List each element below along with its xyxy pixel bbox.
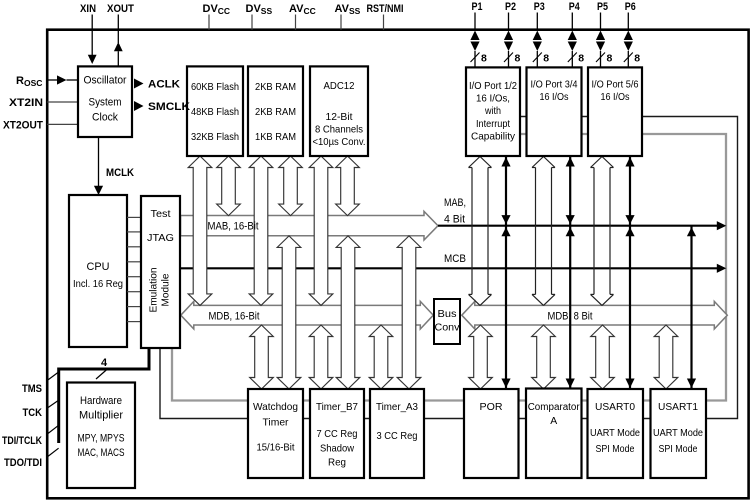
svg-text:XT2OUT: XT2OUT (3, 119, 43, 131)
block ADC12 (310, 66, 368, 156)
svg-text:POR: POR (480, 402, 503, 413)
bus connector IOPort56-MDB8 (open arrow) (591, 157, 603, 168)
svg-text:MPY, MPYS: MPY, MPYS (78, 433, 125, 445)
block Comparator A (526, 389, 582, 479)
bus connector Flash-MAB (short) (217, 156, 241, 216)
bus connector TimerB7-MAB (long) (336, 236, 360, 389)
block Watchdog Timer (248, 389, 303, 478)
signal SMCLK (134, 101, 144, 111)
svg-text:<10µs Conv.: <10µs Conv. (313, 137, 366, 148)
svg-text:TDI/TCLK: TDI/TCLK (2, 435, 42, 447)
svg-text:JTAG: JTAG (147, 233, 174, 244)
wire black wrap line I/O ports to JTAG (right/bottom loop) (160, 117, 738, 419)
arrow MCB right arrowhead (717, 264, 727, 273)
block I/O Port 1/2 (466, 67, 520, 156)
bus connector Watchdog-MAB (long) (277, 236, 301, 389)
svg-text:60KB Flash: 60KB Flash (191, 82, 239, 93)
svg-text:8: 8 (634, 53, 640, 65)
svg-text:Oscillator: Oscillator (84, 75, 127, 87)
svg-text:8 Channels: 8 Channels (315, 124, 363, 135)
wire gray wrap line I/O ports to emulation (right/bottom loop) (172, 134, 726, 401)
svg-text:TDO/TDI: TDO/TDI (4, 457, 42, 469)
svg-text:4 Bit: 4 Bit (444, 214, 465, 226)
svg-text:UART Mode: UART Mode (653, 428, 703, 439)
svg-text:Watchdog: Watchdog (253, 402, 298, 413)
bus connector Flash-MDB (long) (188, 156, 212, 305)
svg-text:P6: P6 (625, 1, 636, 13)
svg-text:Reg: Reg (328, 457, 346, 468)
block Bus Conv (434, 299, 460, 344)
svg-text:USART0: USART0 (595, 402, 635, 413)
svg-text:Timer: Timer (263, 417, 290, 428)
block Timer_B7 (310, 389, 364, 478)
svg-text:2KB RAM: 2KB RAM (255, 107, 296, 118)
svg-text:8: 8 (543, 53, 549, 65)
svg-text:Comparator: Comparator (528, 402, 581, 413)
block I/O Port 5/6 (588, 67, 642, 156)
svg-text:TMS: TMS (22, 383, 42, 395)
block Test/JTAG Emulation Module (141, 196, 180, 348)
svg-text:XOUT: XOUT (107, 3, 134, 15)
bus connector POR-MDB8 (469, 325, 493, 389)
svg-text:8: 8 (578, 53, 584, 65)
svg-text:XT2IN: XT2IN (9, 97, 43, 109)
svg-text:32KB Flash: 32KB Flash (191, 132, 239, 143)
svg-text:Multiplier: Multiplier (79, 410, 123, 422)
arrow MAB4 right arrowhead (717, 221, 727, 230)
bus connector USART0-MDB8 (591, 325, 615, 389)
bus connector ADC12-MAB (short) (336, 156, 360, 216)
svg-text:Hardware: Hardware (80, 395, 122, 407)
block CPU incl 16 registers (69, 195, 127, 347)
svg-text:ACLK: ACLK (148, 79, 180, 91)
svg-text:15/16-Bit: 15/16-Bit (257, 442, 295, 453)
bus connector ADC12-MDB (long) (309, 156, 333, 305)
svg-text:1KB RAM: 1KB RAM (255, 132, 296, 143)
svg-text:P3: P3 (534, 1, 545, 13)
wire I/O Port 1/2 to POR line (505, 157, 507, 389)
svg-text:MAC, MACS: MAC, MACS (78, 447, 125, 459)
wire MCB line (181, 267, 720, 269)
svg-text:TCK: TCK (23, 407, 43, 419)
wire JTAG 4-wire bus (59, 348, 149, 443)
svg-text:MAB, 16-Bit: MAB, 16-Bit (208, 221, 259, 233)
bus connector IOPort12-MDB8 (open arrow) (469, 157, 481, 168)
svg-text:3 CC Reg: 3 CC Reg (377, 431, 418, 442)
bus connector RAM-MDB (long) (249, 156, 273, 305)
svg-text:Conv: Conv (435, 323, 461, 334)
block I/O Port 3/4 (527, 67, 582, 156)
svg-text:16 I/Os,: 16 I/Os, (476, 94, 510, 105)
block USART0 (588, 389, 644, 478)
svg-text:SPI Mode: SPI Mode (659, 444, 698, 455)
svg-text:Incl. 16 Reg: Incl. 16 Reg (73, 279, 123, 290)
svg-text:XIN: XIN (80, 3, 96, 15)
svg-text:Bus: Bus (438, 309, 457, 320)
block Hardware Multiplier (67, 383, 135, 489)
svg-text:8: 8 (481, 53, 487, 65)
svg-text:MAB,: MAB, (444, 197, 466, 209)
svg-text:12-Bit: 12-Bit (326, 112, 353, 123)
block Oscillator/System Clock (78, 66, 132, 137)
svg-text:16 I/Os: 16 I/Os (601, 92, 630, 103)
svg-text:Shadow: Shadow (320, 443, 354, 454)
svg-text:CPU: CPU (87, 261, 110, 273)
svg-text:Interrupt: Interrupt (476, 119, 510, 130)
bus connector USART1-MDB8 (654, 325, 678, 389)
svg-text:8: 8 (607, 53, 613, 65)
svg-text:P4: P4 (569, 1, 581, 13)
svg-text:USART1: USART1 (658, 402, 698, 413)
svg-text:Timer_A3: Timer_A3 (376, 402, 418, 413)
bus connector ComparatorA-MDB8 (532, 325, 556, 389)
bus MDB 16-bit (181, 301, 433, 329)
bus connector IOPort34-MDB8 (open arrow) (532, 157, 544, 168)
svg-text:MDB, 8 Bit: MDB, 8 Bit (548, 310, 593, 322)
bus connector TimerB7-MDB (short) (309, 325, 333, 389)
svg-text:MCB: MCB (444, 253, 466, 265)
wire I/O Port 3/4 to Comparator line (569, 157, 571, 389)
svg-text:A: A (550, 416, 557, 427)
svg-text:P5: P5 (597, 1, 608, 13)
svg-text:7 CC Reg: 7 CC Reg (317, 429, 358, 440)
svg-text:RST/NMI: RST/NMI (367, 3, 404, 15)
svg-text:8: 8 (515, 53, 521, 65)
signal MCLK (98, 137, 100, 187)
svg-text:Capability: Capability (471, 131, 516, 142)
block Flash memory (187, 66, 243, 156)
svg-text:SMCLK: SMCLK (148, 101, 190, 113)
svg-text:Timer_B7: Timer_B7 (316, 402, 358, 413)
wire I/O Port 5/6 to USART0 line (629, 157, 631, 389)
signal ACLK (134, 79, 144, 89)
block USART1 (651, 389, 707, 478)
svg-text:MDB, 16-Bit: MDB, 16-Bit (209, 310, 260, 322)
block Timer_A3 (370, 389, 424, 478)
svg-text:I/O Port 3/4: I/O Port 3/4 (531, 80, 578, 91)
svg-text:P1: P1 (472, 1, 483, 13)
wire CPU-JTAG bus ticks (127, 216, 141, 218)
bus connector TimerA3-MAB (long) (397, 236, 421, 389)
svg-text:I/O Port 1/2: I/O Port 1/2 (469, 81, 517, 92)
svg-text:Module: Module (161, 273, 172, 306)
svg-text:Clock: Clock (92, 112, 119, 124)
svg-text:2KB RAM: 2KB RAM (255, 82, 296, 93)
svg-text:48KB Flash: 48KB Flash (191, 107, 239, 118)
svg-text:Emulation: Emulation (149, 268, 160, 313)
svg-text:4: 4 (101, 357, 108, 369)
svg-text:SPI Mode: SPI Mode (596, 444, 635, 455)
wire MAB 4-bit line (438, 225, 719, 227)
bus connector TimerA3-MDB (short) (369, 325, 393, 389)
svg-text:P2: P2 (505, 1, 516, 13)
svg-text:I/O Port 5/6: I/O Port 5/6 (592, 80, 639, 91)
svg-text:Test: Test (151, 209, 171, 220)
bus MDB 8-bit (462, 301, 728, 329)
svg-text:System: System (89, 97, 122, 109)
block POR (464, 389, 519, 478)
svg-text:ADC12: ADC12 (324, 81, 355, 92)
svg-text:UART Mode: UART Mode (590, 428, 640, 439)
wire MAB4 to USART1 line (690, 226, 692, 388)
bus MAB 16-bit (181, 211, 439, 240)
svg-text:with: with (484, 106, 501, 117)
block RAM (248, 66, 303, 156)
svg-text:MCLK: MCLK (106, 167, 134, 179)
bus connector RAM-MAB (short) (279, 156, 303, 216)
bus connector Watchdog-MDB (short) (250, 325, 274, 389)
svg-text:16 I/Os: 16 I/Os (540, 92, 569, 103)
